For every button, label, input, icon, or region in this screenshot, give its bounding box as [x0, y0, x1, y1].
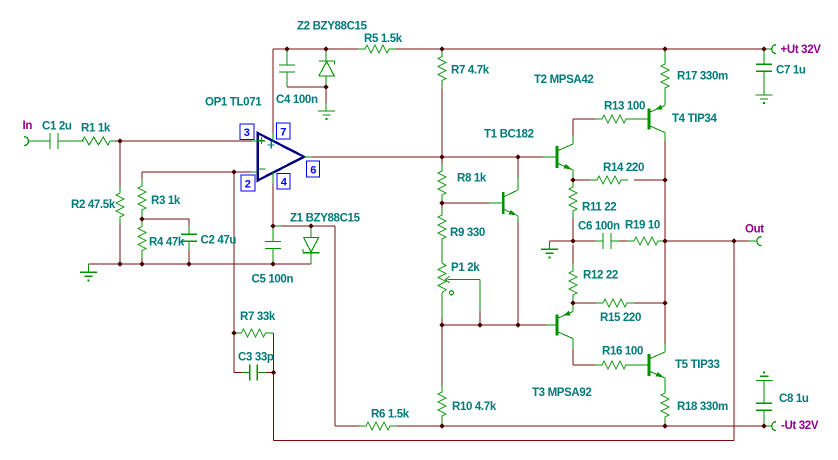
svg-text:C7 1u: C7 1u — [776, 65, 806, 77]
svg-text:R8 1k: R8 1k — [457, 173, 487, 185]
svg-text:R11 22: R11 22 — [582, 202, 616, 214]
svg-text:C8 1u: C8 1u — [779, 393, 809, 405]
svg-text:R10 4.7k: R10 4.7k — [452, 401, 497, 413]
svg-text:R7 33k: R7 33k — [240, 311, 276, 323]
svg-text:7: 7 — [280, 127, 286, 139]
svg-text:R12 22: R12 22 — [583, 270, 618, 282]
svg-text:P1 2k: P1 2k — [451, 262, 480, 274]
svg-text:T5 TIP33: T5 TIP33 — [675, 359, 720, 371]
svg-text:R17 330m: R17 330m — [677, 71, 728, 83]
svg-text:-Ut 32V: -Ut 32V — [781, 420, 819, 432]
svg-text:Out: Out — [745, 224, 764, 236]
svg-text:T1 BC182: T1 BC182 — [484, 129, 534, 141]
svg-text:T2 MPSA42: T2 MPSA42 — [534, 74, 593, 86]
svg-text:R13 100: R13 100 — [604, 101, 645, 113]
svg-text:T4 TIP34: T4 TIP34 — [672, 113, 717, 125]
svg-text:C3 33p: C3 33p — [238, 352, 274, 364]
svg-text:C5 100n: C5 100n — [252, 274, 294, 286]
svg-text:R19 10: R19 10 — [625, 220, 660, 232]
svg-text:Z1 BZY88C15: Z1 BZY88C15 — [290, 213, 361, 225]
svg-text:4: 4 — [281, 177, 288, 189]
svg-text:R3 1k: R3 1k — [151, 195, 181, 207]
svg-text:6: 6 — [310, 165, 316, 177]
svg-text:C1 2u: C1 2u — [42, 121, 72, 133]
svg-text:C6 100n: C6 100n — [578, 221, 620, 233]
svg-text:R9 330: R9 330 — [450, 227, 485, 239]
svg-text:R16 100: R16 100 — [602, 346, 643, 358]
svg-text:Z2 BZY88C15: Z2 BZY88C15 — [297, 21, 368, 33]
svg-text:R18 330m: R18 330m — [677, 401, 728, 413]
svg-text:R7 4.7k: R7 4.7k — [451, 65, 490, 77]
svg-text:OP1 TL071: OP1 TL071 — [205, 97, 262, 109]
svg-text:3: 3 — [244, 127, 250, 139]
svg-text:R5 1.5k: R5 1.5k — [364, 33, 403, 45]
svg-text:R4 47k: R4 47k — [149, 237, 185, 249]
svg-text:R15 220: R15 220 — [600, 312, 641, 324]
svg-text:R6 1.5k: R6 1.5k — [371, 409, 410, 421]
svg-text:In: In — [23, 120, 33, 132]
svg-text:R2 47.5k: R2 47.5k — [71, 199, 116, 211]
svg-text:T3 MPSA92: T3 MPSA92 — [532, 387, 591, 399]
svg-text:2: 2 — [245, 179, 251, 191]
svg-text:C4 100n: C4 100n — [276, 94, 318, 106]
svg-text:C2 47u: C2 47u — [201, 235, 237, 247]
svg-text:+Ut 32V: +Ut 32V — [781, 44, 822, 56]
svg-text:R1 1k: R1 1k — [81, 123, 111, 135]
svg-text:R14 220: R14 220 — [603, 162, 644, 174]
